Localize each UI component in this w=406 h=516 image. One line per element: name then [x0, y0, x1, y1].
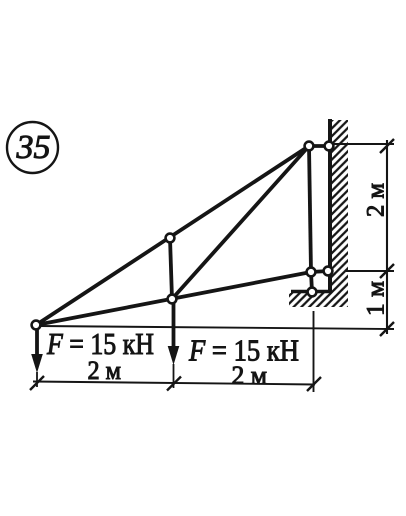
wall hatching — [289, 120, 348, 307]
tick bottom — [380, 322, 394, 336]
force arrow F2 at node B — [168, 303, 180, 388]
svg-text:2 м: 2 м — [232, 361, 268, 390]
node B — [168, 295, 177, 304]
link E1-E3 — [311, 271, 328, 272]
link E1-E4 — [311, 272, 312, 292]
member: bottom chord A-B-E1 — [36, 272, 311, 325]
member: diagonal B-D — [172, 146, 309, 299]
force arrow F1 at node A — [31, 329, 43, 387]
member: top chord A-C-D — [36, 146, 309, 325]
node C — [166, 234, 175, 243]
extension line middle (from pin E3) — [346, 270, 394, 272]
tick at A — [30, 376, 44, 390]
problem number badge circle 35 — [7, 122, 58, 173]
support pin E4 — [308, 288, 317, 297]
link D-E2 — [309, 144, 329, 148]
node D — [305, 142, 314, 151]
support bracket line — [291, 290, 332, 294]
svg-text:2 м: 2 м — [88, 356, 122, 385]
bottom dimension line — [33, 382, 315, 385]
node A — [32, 321, 41, 330]
wall pin E3 — [324, 267, 333, 276]
svg-text:2 м: 2 м — [363, 183, 390, 217]
svg-text:1 м: 1 м — [363, 281, 390, 316]
tick at B — [167, 377, 181, 391]
datum extension line at level of node A — [39, 326, 394, 329]
member: vertical D-E1 — [309, 146, 311, 272]
tick at support — [307, 377, 321, 391]
extension line top (from pin E2) — [334, 143, 394, 145]
node E1 — [307, 268, 316, 277]
tick middle — [380, 264, 394, 278]
member: vertical C-B — [170, 238, 172, 299]
svg-text:35: 35 — [16, 129, 51, 166]
tick top — [380, 139, 394, 153]
wall edge line — [328, 119, 332, 292]
right vertical dimension line — [386, 140, 388, 334]
wall pin E2 — [325, 142, 334, 151]
extension line from support down to dimension line — [313, 311, 315, 392]
